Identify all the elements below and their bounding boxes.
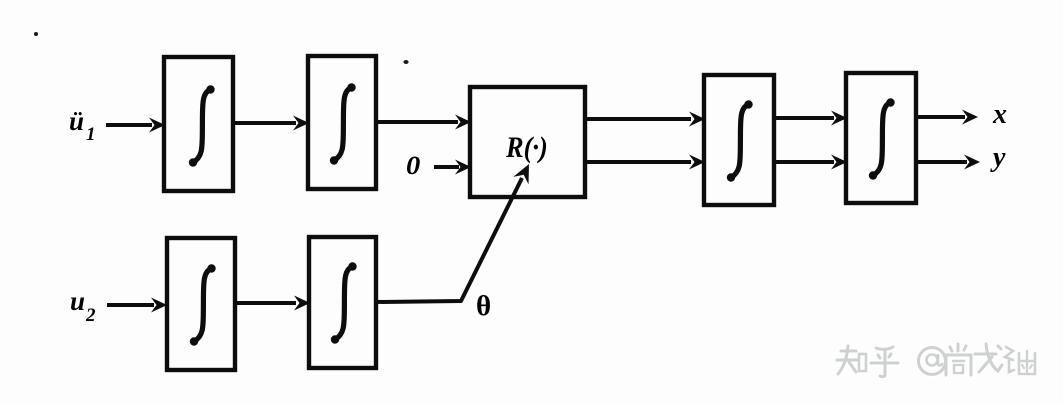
- wire R to U4 upper: [587, 112, 705, 127]
- svg-text:u: u: [70, 286, 85, 316]
- node u2 label: [70, 286, 96, 326]
- wire theta: horizontal from U7 then diagonal arrow into R box: [376, 160, 537, 302]
- wire output x arrow: [916, 110, 978, 125]
- wire U4 to U5 upper: [774, 111, 847, 126]
- svg-text:R(·): R(·): [505, 132, 548, 165]
- wire U2 to R box: [376, 115, 471, 130]
- wire u2 input arrow: [107, 298, 167, 313]
- integrator block U2: [308, 56, 376, 189]
- stray dot near box B2 top right: [403, 60, 408, 64]
- wire U1 to U2: [233, 116, 309, 131]
- wire R to U4 lower: [587, 155, 705, 170]
- wire U6 to U7: [235, 296, 310, 311]
- watermark zhihu @shanggeji: [837, 344, 1035, 377]
- svg-text:x: x: [992, 99, 1007, 130]
- integrator block U5: [846, 73, 916, 203]
- svg-text:0: 0: [406, 151, 421, 180]
- integrator block U4: [704, 75, 774, 205]
- svg-text:1: 1: [86, 124, 96, 145]
- hu char: [871, 347, 898, 377]
- at sign: [919, 348, 946, 375]
- stray dot top-left: [34, 32, 38, 36]
- svg-text:ü: ü: [69, 106, 84, 136]
- svg-text:2: 2: [85, 305, 96, 326]
- shang char: [946, 344, 971, 375]
- svg-text:y: y: [990, 142, 1006, 173]
- wire u1dd input arrow: [106, 118, 165, 133]
- ji char: [1005, 347, 1035, 374]
- integrator block U7: [309, 237, 376, 368]
- wire U4 to U5 lower: [774, 155, 847, 170]
- zhi char: [837, 346, 866, 374]
- node u1dd label: [69, 106, 96, 145]
- ge char: [975, 344, 1002, 372]
- wire output y arrow: [916, 155, 980, 170]
- svg-text:θ: θ: [476, 290, 491, 322]
- rotation block U3 R(.): [470, 87, 585, 197]
- integrator block U1: [164, 57, 233, 191]
- wire 0 input arrow: [434, 160, 471, 175]
- integrator block U6: [167, 238, 235, 370]
